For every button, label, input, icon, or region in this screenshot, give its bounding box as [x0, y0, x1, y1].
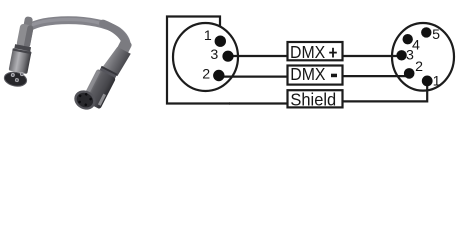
- connector J1 insert circle: [173, 23, 238, 91]
- svg-text:3: 3: [210, 47, 218, 63]
- svg-text:2: 2: [202, 67, 210, 83]
- photo: XLR adapter cable (grey cable arc): [28, 19, 127, 44]
- wire: J1 shell to Shield box (shield net): [229, 102, 288, 104]
- J1 pin 1 dot: [215, 36, 226, 47]
- wire: DMX- box to J2 pin 2: [342, 75, 409, 77]
- svg-text:2: 2: [415, 59, 423, 75]
- svg-text:1: 1: [433, 73, 441, 89]
- connector J1 shell (3-pin XLR male, front view): [167, 17, 230, 104]
- wire: Shield box to J2 pin 1 (with riser): [342, 81, 427, 101]
- svg-text:DMX: DMX: [290, 42, 325, 62]
- photo: male 3-pin XLR connector: [3, 14, 38, 88]
- J2 pin 3 dot: [396, 50, 406, 60]
- J2 pin 5 dot: [421, 27, 431, 37]
- svg-text:Shield: Shield: [290, 90, 336, 110]
- svg-text:DMX: DMX: [290, 64, 325, 84]
- net name DMX-: [290, 64, 337, 84]
- net label box DMX-: [288, 66, 343, 85]
- connector J2 insert circle (5-pin XLR): [392, 23, 454, 91]
- J1 pin 3 dot: [222, 51, 233, 62]
- net label box DMX+: [288, 42, 343, 60]
- net name DMX+: [290, 42, 337, 62]
- wire: J1 pin 3 to DMX+ box: [228, 55, 288, 57]
- wire: DMX+ box to J2 pin 3: [342, 55, 402, 57]
- net label box Shield: [288, 90, 343, 107]
- svg-text:5: 5: [432, 27, 440, 43]
- svg-text:1: 1: [204, 28, 212, 44]
- photo: female XLR connector: [71, 31, 135, 117]
- J2 pin 4 dot: [403, 34, 413, 44]
- J2 pin 1 dot: [422, 76, 433, 87]
- J2 pin 2 dot: [404, 68, 415, 79]
- J1 pin 2 dot: [213, 70, 224, 81]
- wire: J1 pin 2 to DMX- box: [219, 75, 288, 77]
- svg-text:3: 3: [406, 48, 414, 64]
